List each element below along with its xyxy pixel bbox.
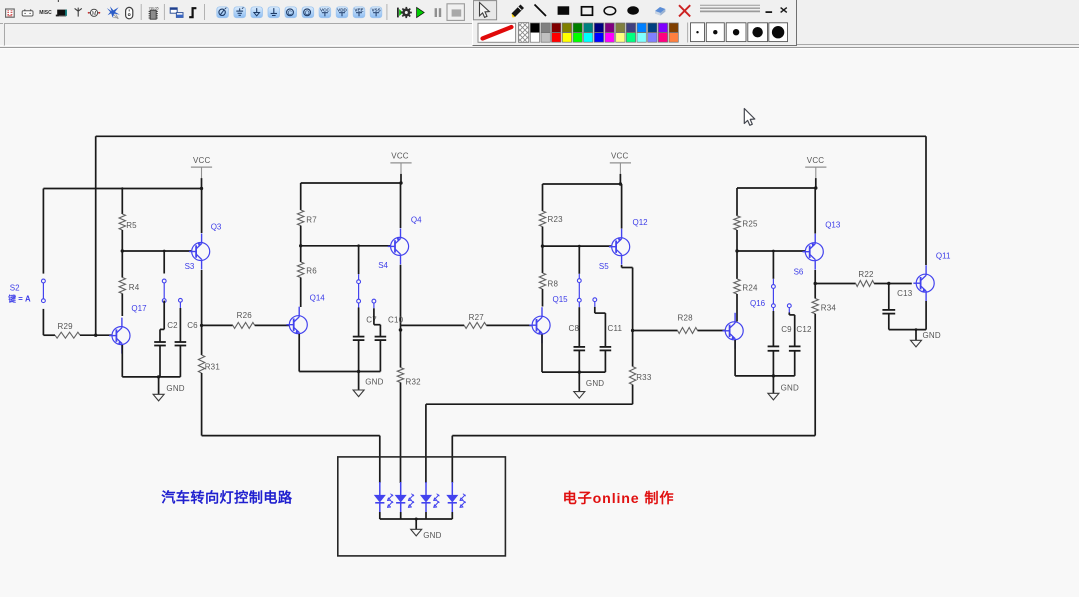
wire S2 lower lead <box>42 309 44 335</box>
toolbar icon battery <box>22 9 33 16</box>
svg-text:VCC: VCC <box>807 156 825 165</box>
LED box <box>338 457 506 556</box>
junction stage2 bus / GND <box>357 370 360 373</box>
LED X2 <box>396 482 415 519</box>
toolbar power button CHASSIS <box>268 7 280 18</box>
LED X3 <box>421 482 440 519</box>
capacitor C10 <box>375 316 404 372</box>
svg-text:R7: R7 <box>306 215 317 224</box>
wire C11 top jog <box>595 307 606 313</box>
svg-text:VCC: VCC <box>391 152 409 161</box>
junction stage4 bus / GND <box>772 374 775 377</box>
resistor R23 <box>539 184 563 246</box>
wire Q3 emitter <box>201 270 203 325</box>
wire stage3 top <box>543 183 621 185</box>
svg-text:GND: GND <box>423 531 441 540</box>
ground stage2 <box>353 372 384 397</box>
svg-text:S6: S6 <box>794 268 804 277</box>
wire Q12 collector <box>621 184 623 229</box>
wire stage4 base <box>737 250 805 252</box>
transistor Q14 <box>287 294 326 343</box>
wire stage3 emitter bus <box>542 335 605 373</box>
toolbar icon antenna <box>75 8 82 17</box>
power VCC stage2 <box>390 152 411 185</box>
svg-text:Q12: Q12 <box>633 218 649 227</box>
svg-text:R28: R28 <box>678 313 694 322</box>
wire stage4 top <box>737 187 816 189</box>
wire stage1 emitter bus <box>122 345 180 377</box>
draw current color box <box>478 23 516 42</box>
svg-text:GND: GND <box>365 378 383 387</box>
resistor R6 <box>298 246 318 307</box>
junction stage3 output node <box>631 329 634 332</box>
svg-text:R24: R24 <box>742 283 758 292</box>
junction Q11 emitter / GND <box>915 328 918 331</box>
wire stage1 base <box>122 250 192 252</box>
svg-text:GND: GND <box>166 384 184 393</box>
svg-text:R33: R33 <box>636 373 652 382</box>
transistor Q11 <box>913 251 951 301</box>
resistor R7 <box>298 183 318 246</box>
draw panel separator <box>688 23 689 43</box>
junction LED bus / GND <box>415 518 418 521</box>
toolbar power button VCC-arrow <box>285 7 297 18</box>
label S4 <box>378 261 388 270</box>
capacitor C7 <box>353 308 377 372</box>
draw color palette <box>530 23 678 42</box>
svg-text:R27: R27 <box>469 313 485 322</box>
window edge tick <box>58 0 59 2</box>
wire Q13 collector <box>814 188 816 234</box>
wire stage1 top <box>43 188 201 190</box>
draw tool rect outline <box>582 7 593 15</box>
svg-text:C: C <box>288 11 293 17</box>
svg-text:VDD: VDD <box>337 7 347 12</box>
svg-text:R34: R34 <box>821 303 837 312</box>
toolbar icon pause <box>435 8 442 17</box>
toolbar power button VCC <box>319 7 331 18</box>
wire stage3 to LED3 <box>426 404 633 483</box>
svg-text:C6: C6 <box>187 321 198 330</box>
toolbar icon stop <box>447 4 464 21</box>
resistor R5 <box>119 189 137 252</box>
draw transparent pattern swatch <box>519 23 529 43</box>
toolbar power button DGND <box>217 7 229 18</box>
toolbar power button VSS <box>370 7 382 18</box>
wire LED cathode bus <box>380 518 453 520</box>
toolbar icon MISC <box>39 10 52 16</box>
draw toolbar minimize <box>766 11 773 13</box>
junction stage1 bus / GND <box>157 375 160 378</box>
junction stage1 base node <box>121 249 166 252</box>
svg-text:C10: C10 <box>388 316 404 325</box>
capacitor C8 <box>569 307 586 372</box>
wire Q13 emitter <box>814 270 816 284</box>
svg-text:Q4: Q4 <box>411 215 422 224</box>
toolbar power button VDD <box>336 7 348 18</box>
wire C10 top jog <box>374 308 381 324</box>
resistor R22 <box>815 270 912 287</box>
resistor R33 <box>629 331 651 405</box>
switch S4 body <box>357 274 361 307</box>
wire stage2 to LED2 <box>400 457 402 483</box>
svg-text:M: M <box>92 11 96 17</box>
svg-text:GND: GND <box>781 383 799 392</box>
toolbar icon hierarchical block <box>170 8 183 18</box>
resistor R34 <box>812 284 836 436</box>
toolbar power button VSS-arrow <box>302 7 314 18</box>
svg-text:C7: C7 <box>366 316 377 325</box>
junction stage3 bus / GND <box>578 370 581 373</box>
wire stage4 to LED4 <box>452 436 815 483</box>
resistor R25 <box>734 188 758 251</box>
wire top rail <box>96 135 926 137</box>
toolbar icon chip tower <box>149 6 159 19</box>
transistor Q3 <box>189 223 222 270</box>
svg-text:Q3: Q3 <box>211 223 222 232</box>
svg-text:VCC: VCC <box>320 7 330 12</box>
wire Q12 emitter jog <box>622 265 633 331</box>
junction stage1 output node <box>200 324 203 327</box>
wire Q4 emitter <box>400 265 402 326</box>
transistor Q4 <box>388 215 422 264</box>
title text chinese blue <box>161 489 293 506</box>
label S2 key <box>7 294 31 304</box>
svg-text:S3: S3 <box>185 262 195 271</box>
transistor Q17 <box>109 304 147 354</box>
transistor Q16 <box>722 299 765 349</box>
resistor R32 <box>397 325 421 457</box>
junction stage2 base node <box>299 244 360 247</box>
resistor R31 <box>198 325 220 435</box>
power VCC stage3 <box>610 152 631 186</box>
capacitor C6 <box>175 308 199 377</box>
toolbar icon blue bird <box>107 6 120 18</box>
toolbar power button VEE <box>353 7 365 18</box>
capacitor C11 <box>600 313 623 372</box>
ground LED box <box>411 519 442 540</box>
toolbar icon monitor <box>56 10 67 17</box>
mouse cursor <box>744 109 755 126</box>
switch S5 body <box>577 274 581 307</box>
pin C11 open terminal <box>593 298 597 307</box>
svg-text:GND: GND <box>586 379 604 388</box>
switch S2 <box>10 279 46 303</box>
power VCC stage1 <box>191 156 212 190</box>
toolbar icon run <box>417 7 425 17</box>
draw tool eraser <box>655 7 665 16</box>
svg-text:R25: R25 <box>742 219 758 228</box>
capacitor C12 <box>789 315 812 376</box>
capacitor C2 <box>154 321 178 377</box>
switch S3 body <box>162 279 166 302</box>
draw tool filled ellipse <box>627 6 639 14</box>
svg-text:C8: C8 <box>569 324 580 333</box>
wire top rail right drop to Q11 collector <box>925 136 927 265</box>
wire stage2 top <box>301 182 401 184</box>
svg-text:C2: C2 <box>167 321 178 330</box>
svg-text:C11: C11 <box>608 324 623 333</box>
svg-text:R22: R22 <box>858 270 874 279</box>
svg-text:S2: S2 <box>10 284 20 293</box>
wire S3 upper lead <box>163 251 165 274</box>
svg-text:GND: GND <box>923 331 941 340</box>
svg-text:R29: R29 <box>58 322 74 331</box>
svg-text:C13: C13 <box>897 289 913 298</box>
toolbar separator 1 <box>140 4 142 20</box>
svg-text:Q14: Q14 <box>310 294 326 303</box>
svg-text:S4: S4 <box>378 261 388 270</box>
wire stage1 to LED1 <box>202 436 380 483</box>
ground stage4 <box>768 376 799 400</box>
draw tool delete X <box>679 5 690 16</box>
svg-text:VSS: VSS <box>371 7 380 12</box>
toolbar icon motor <box>88 9 101 17</box>
pin C6 open terminal <box>179 298 183 308</box>
junction C13 tap <box>887 282 890 285</box>
toolbar icon capsule <box>126 7 133 18</box>
svg-text:MISC: MISC <box>39 10 52 16</box>
draw tool line <box>535 5 547 17</box>
svg-text:VCC: VCC <box>193 156 211 165</box>
wire C12 top jog <box>789 313 794 315</box>
credit text red <box>563 490 675 507</box>
wire stage2 emitter bus <box>299 334 380 372</box>
draw tool ellipse outline <box>604 7 616 15</box>
wire top rail left drop <box>95 136 97 335</box>
draw tool filled rect <box>558 6 570 15</box>
resistor R8 <box>539 246 558 306</box>
svg-text:R6: R6 <box>306 267 317 276</box>
toolbar separator 3 <box>204 4 206 20</box>
ground Q11 <box>911 330 941 347</box>
wire Q4 collector <box>400 183 402 228</box>
junction R29 / left drop <box>94 334 97 337</box>
draw toolbar width lines <box>700 5 760 11</box>
junction stage3 base node <box>541 244 581 247</box>
resistor R29 <box>43 322 112 338</box>
svg-text:汽车转向灯控制电路: 汽车转向灯控制电路 <box>161 489 293 506</box>
pin C10 open terminal <box>372 299 376 308</box>
svg-text:O: O <box>305 11 310 17</box>
wire C13 bottom to Q11 emitter <box>889 329 926 331</box>
svg-text:键 = A: 键 = A <box>7 294 31 304</box>
toolbar icon run settings gear <box>398 7 412 18</box>
wire S2 upper lead <box>42 189 44 274</box>
svg-text:R32: R32 <box>406 377 422 386</box>
toolbar power button GND <box>234 7 246 18</box>
svg-text:Q15: Q15 <box>553 295 569 304</box>
svg-text:R23: R23 <box>548 215 564 224</box>
transistor Q13 <box>803 221 841 270</box>
svg-text:Q16: Q16 <box>750 299 766 308</box>
resistor R24 <box>734 251 758 322</box>
svg-text:R8: R8 <box>548 280 559 289</box>
wire stage4 emitter bus <box>735 340 795 376</box>
toolbar icon bus branch <box>189 8 196 17</box>
resistor R27 <box>401 313 532 328</box>
draw toolbar close <box>781 8 787 13</box>
svg-text:Q17: Q17 <box>131 304 147 313</box>
svg-text:R31: R31 <box>205 362 221 371</box>
wire Q11 emitter <box>925 301 927 330</box>
label S6 <box>794 268 804 277</box>
resistor R4 <box>119 251 140 316</box>
draw tool marker <box>512 5 525 18</box>
wire S5 upper lead <box>578 246 580 274</box>
svg-text:Q13: Q13 <box>825 221 841 230</box>
svg-text:Q11: Q11 <box>936 251 951 260</box>
toolbar separator 4 <box>386 4 388 20</box>
transistor Q15 <box>529 295 568 343</box>
wire stage2 base <box>301 245 391 247</box>
junction stage2 output node <box>399 328 403 332</box>
wire stage3 base <box>543 245 612 247</box>
toolbar icon ROM chip <box>6 9 15 17</box>
junction stage1 top-left column <box>121 187 123 189</box>
wire Q3 collector <box>201 189 203 234</box>
svg-text:R5: R5 <box>126 221 137 230</box>
ground stage3 <box>574 372 605 398</box>
toolbar separator 2 <box>163 4 165 20</box>
junction stage4 base node <box>735 249 775 252</box>
label S5 <box>599 262 609 271</box>
svg-text:VEE: VEE <box>354 7 363 12</box>
label S3 <box>185 262 195 271</box>
power VCC stage4 <box>805 156 826 190</box>
draw tool select arrow (active) <box>473 1 496 20</box>
svg-text:C12: C12 <box>796 325 812 334</box>
svg-text:电子online 制作: 电子online 制作 <box>563 490 675 507</box>
pin C12 open terminal <box>787 304 791 313</box>
svg-text:R4: R4 <box>129 283 140 292</box>
ground stage1 <box>153 377 185 401</box>
switch S6 body <box>772 279 776 311</box>
resistor R28 <box>633 313 726 333</box>
svg-text:R26: R26 <box>237 311 253 320</box>
wire S6 upper lead <box>772 251 774 279</box>
junction stage4 output node <box>814 282 817 285</box>
wire S4 upper lead <box>358 246 360 274</box>
capacitor C9 <box>768 311 793 376</box>
svg-text:VCC: VCC <box>611 152 629 161</box>
LED X4 <box>447 482 466 519</box>
draw dot size cells <box>691 23 788 42</box>
toolbar power button EARTH <box>251 7 263 18</box>
svg-text:S5: S5 <box>599 262 609 271</box>
LED X1 <box>375 482 394 519</box>
capacitor C13 <box>882 284 912 330</box>
wire S3 to C2 <box>160 301 164 330</box>
svg-text:C9: C9 <box>781 325 792 334</box>
resistor R26 <box>202 311 290 329</box>
transistor Q12 <box>609 218 648 265</box>
